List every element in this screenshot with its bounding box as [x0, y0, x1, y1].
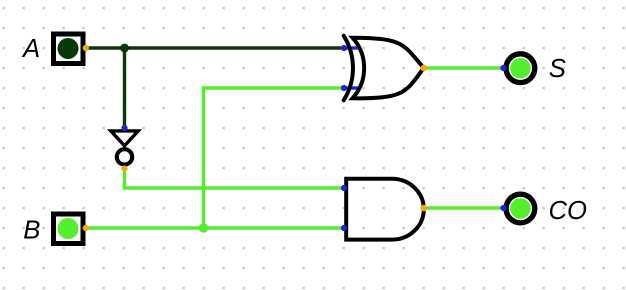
svg-text:CO: CO	[549, 197, 588, 225]
svg-text:S: S	[549, 55, 566, 83]
svg-text:B: B	[23, 216, 40, 244]
svg-text:A: A	[21, 35, 40, 63]
